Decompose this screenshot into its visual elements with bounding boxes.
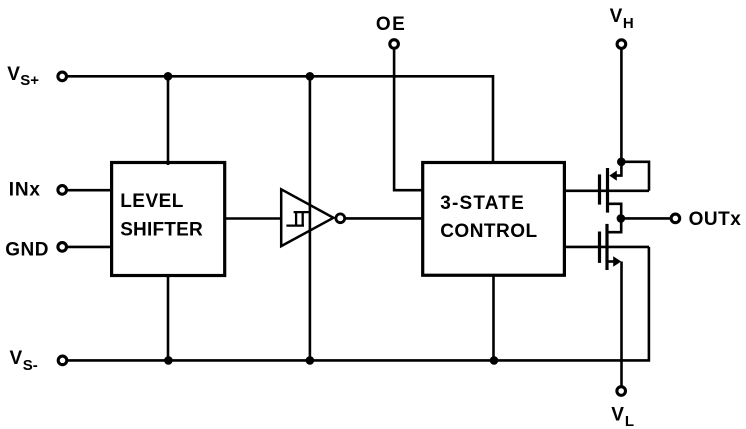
svg-text:SHIFTER: SHIFTER bbox=[120, 220, 203, 241]
svg-text:LEVEL: LEVEL bbox=[120, 191, 184, 212]
svg-text:S-: S- bbox=[23, 357, 38, 374]
svg-text:V: V bbox=[10, 348, 23, 369]
svg-text:V: V bbox=[611, 405, 624, 426]
svg-text:3-STATE: 3-STATE bbox=[440, 193, 525, 214]
svg-text:V: V bbox=[7, 64, 20, 85]
svg-text:S+: S+ bbox=[20, 72, 39, 89]
svg-text:L: L bbox=[625, 413, 634, 429]
svg-text:OUTx: OUTx bbox=[689, 209, 742, 230]
svg-text:OE: OE bbox=[376, 14, 406, 35]
svg-text:CONTROL: CONTROL bbox=[440, 221, 537, 242]
svg-text:GND: GND bbox=[5, 240, 49, 261]
svg-text:H: H bbox=[623, 15, 634, 32]
svg-text:V: V bbox=[610, 6, 623, 27]
svg-text:INx: INx bbox=[9, 180, 41, 201]
